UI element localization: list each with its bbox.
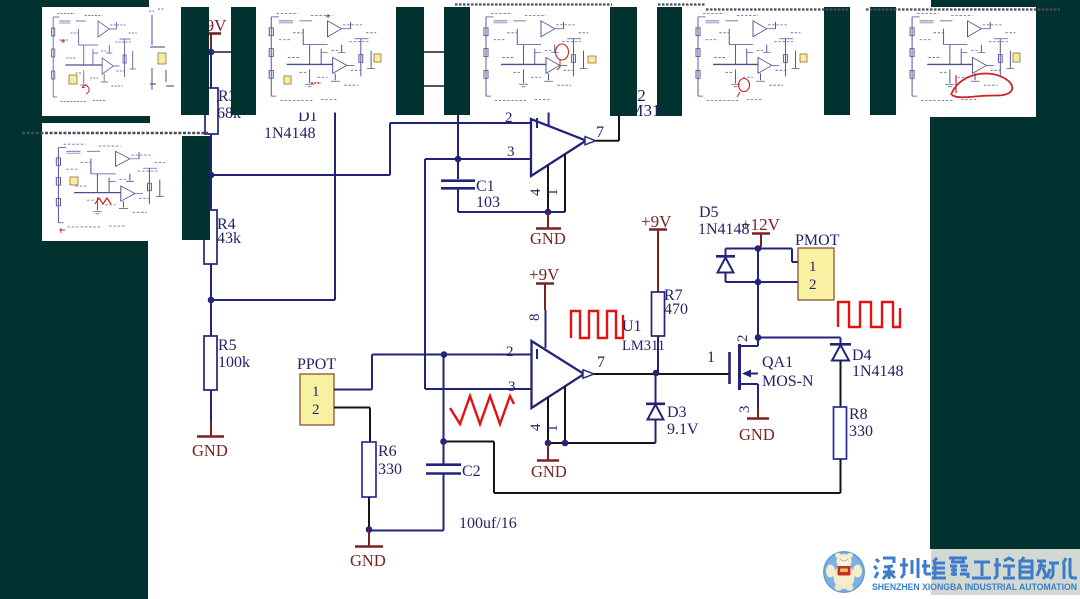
capacitor C1 [441, 159, 500, 212]
node L junction [366, 526, 373, 533]
wire R8 bottom feedback rail [444, 442, 841, 494]
工 [972, 562, 991, 578]
resistor R4 [204, 210, 241, 264]
svg-text:MOS-N: MOS-N [762, 373, 814, 390]
svg-text:470: 470 [664, 301, 688, 318]
node M junction (U1 pin2 net / C2 top) [441, 351, 448, 358]
svg-text:2: 2 [809, 277, 817, 293]
wire C1 bottom rail to U2 pins [458, 211, 565, 213]
svg-text:100k: 100k [218, 354, 250, 371]
svg-text:103: 103 [476, 194, 500, 211]
ground R6 [350, 530, 386, 570]
svg-text:1: 1 [707, 349, 715, 366]
connector PPOT [297, 356, 336, 425]
wire R3 to node B [210, 134, 212, 210]
wire R7 to node F [657, 336, 659, 373]
svg-text:GND: GND [192, 441, 228, 460]
Chinese company name (drawn strokes) [874, 557, 1077, 579]
resistor R6 [362, 442, 402, 497]
node H junction [562, 440, 569, 447]
ground U2 [530, 212, 566, 248]
tiny caption text rows [22, 132, 208, 135]
svg-text:2: 2 [735, 335, 751, 343]
diode D5 [698, 204, 758, 282]
thumbnail T3 [470, 7, 610, 113]
svg-text:R5: R5 [218, 337, 237, 354]
svg-text:GND: GND [350, 551, 386, 570]
resistor R5 [204, 336, 250, 390]
svg-text:4: 4 [528, 188, 544, 196]
霸 [949, 558, 968, 578]
svg-text:100uf/16: 100uf/16 [459, 515, 517, 532]
wire R4 to node C [210, 264, 212, 336]
waveform square wave left [571, 311, 623, 338]
node I junction (drain) [755, 334, 762, 341]
power +9V above U1 pin8 [529, 265, 560, 310]
op-amp U1 LM311 [506, 341, 605, 443]
node K junction (+12V node) [755, 245, 762, 252]
wire +12V node to PMOT pin1 [758, 249, 798, 263]
node E junction (U2 gnd rail) [545, 209, 552, 216]
wire net to U2 pin3 and U1 pin3 [425, 159, 532, 389]
svg-text:8: 8 [527, 314, 543, 322]
wire drain column [757, 249, 759, 338]
svg-text:C1: C1 [476, 178, 495, 195]
power +12V [741, 215, 781, 247]
wire hidden vertical into pin3 node [457, 86, 459, 159]
node G junction [545, 440, 552, 447]
svg-text:7: 7 [596, 124, 604, 141]
waveform sawtooth [450, 396, 514, 424]
动 [1037, 561, 1059, 579]
svg-text:43k: 43k [217, 230, 241, 247]
wire pin8 U1 [545, 310, 547, 348]
wire +9V rail to hidden upper circuit [211, 51, 470, 53]
strip right of T1 [149, 9, 174, 90]
capacitor C2 [369, 463, 517, 532]
node C junction [208, 297, 215, 304]
power +9V above R7 [641, 212, 672, 292]
svg-text:R6: R6 [378, 443, 397, 460]
thumbnail T2 [256, 7, 396, 113]
diode D1 (mostly hidden) with wire down to node C [264, 100, 335, 300]
node A (+9V rail junction) [208, 49, 215, 56]
wire PPOT pin2 down to R6 [334, 408, 370, 443]
thumbnail T4 [682, 7, 824, 112]
svg-text:GND: GND [739, 425, 775, 444]
thumbnail T5 [896, 7, 1036, 115]
svg-text:LM311: LM311 [622, 338, 665, 354]
ground below R5 [192, 390, 228, 460]
wire node C to D1 [211, 299, 335, 301]
wire C2 column [443, 355, 445, 465]
U1 bottom rail [548, 420, 656, 443]
svg-text:1: 1 [545, 189, 561, 197]
resistor R8 [834, 406, 874, 459]
svg-text:GND: GND [530, 229, 566, 248]
svg-text:+9V: +9V [641, 212, 672, 231]
wire U1 output to gate [594, 373, 729, 375]
svg-text:330: 330 [378, 461, 402, 478]
wire U1 pin2 [372, 354, 532, 356]
深 [874, 558, 895, 579]
transistor QA1 MOS-N [730, 335, 815, 414]
控 [994, 558, 1015, 579]
svg-text:3: 3 [507, 144, 515, 160]
wire R6 bottom [368, 497, 370, 531]
svg-text:1N4148: 1N4148 [264, 125, 316, 142]
op-amp U2 LM311 [505, 86, 668, 212]
wire PPOT pin1 up to U1 pin2 net [334, 355, 372, 390]
svg-text:PPOT: PPOT [297, 356, 336, 373]
化 [1063, 558, 1077, 579]
svg-text:330: 330 [849, 423, 873, 440]
node F junction (output node) [653, 370, 660, 377]
svg-text:R8: R8 [849, 406, 868, 423]
svg-text:U1: U1 [622, 318, 642, 335]
diode D4 [830, 344, 904, 407]
connector PMOT [795, 232, 840, 300]
svg-text:2: 2 [312, 402, 320, 418]
power +9V top-left [196, 16, 227, 49]
ground U1 [531, 443, 567, 481]
svg-text:1: 1 [809, 259, 817, 275]
svg-text:+9V: +9V [529, 265, 560, 284]
svg-text:7: 7 [597, 354, 605, 371]
svg-text:D4: D4 [852, 347, 872, 364]
ground QA1 source [739, 407, 775, 444]
wire hidden net y86 [396, 85, 470, 87]
svg-text:3: 3 [508, 379, 516, 395]
svg-text:D5: D5 [699, 204, 719, 221]
thumbnail T6 (left column) [42, 137, 182, 240]
svg-text:D3: D3 [667, 404, 687, 421]
svg-text:3: 3 [737, 406, 753, 414]
resistor R7 [652, 287, 689, 336]
svg-text:SHENZHEN XIONGBA INDUSTRIAL AU: SHENZHEN XIONGBA INDUSTRIAL AUTOMATION [872, 582, 1077, 592]
svg-text:1: 1 [545, 425, 561, 433]
svg-text:1N4148: 1N4148 [698, 221, 750, 238]
logo mascot circle [823, 551, 865, 593]
wire node B to U2 pin2 [211, 123, 531, 175]
雄 [922, 558, 946, 578]
node B junction [208, 172, 215, 179]
wire drain to D4 [758, 338, 841, 345]
waveform square wave right [838, 302, 900, 327]
svg-text:PMOT: PMOT [795, 232, 840, 249]
svg-text:C2: C2 [462, 463, 481, 480]
node N junction [440, 438, 447, 445]
thumbnail T1 [42, 7, 181, 116]
svg-text:1: 1 [312, 384, 320, 400]
node D junction on pin3 wire [455, 156, 462, 163]
svg-text:2: 2 [506, 344, 514, 360]
svg-text:QA1: QA1 [762, 354, 793, 371]
svg-text:GND: GND [531, 462, 567, 481]
node J junction [755, 279, 762, 286]
svg-text:9.1V: 9.1V [667, 421, 699, 438]
自 [1020, 557, 1032, 578]
wire node J to PMOT pin2 [758, 281, 798, 283]
svg-text:4: 4 [528, 423, 544, 431]
svg-text:1N4148: 1N4148 [852, 363, 904, 380]
resistor R3 [205, 52, 241, 134]
zener diode D3 [646, 373, 699, 443]
圳 [900, 558, 918, 578]
